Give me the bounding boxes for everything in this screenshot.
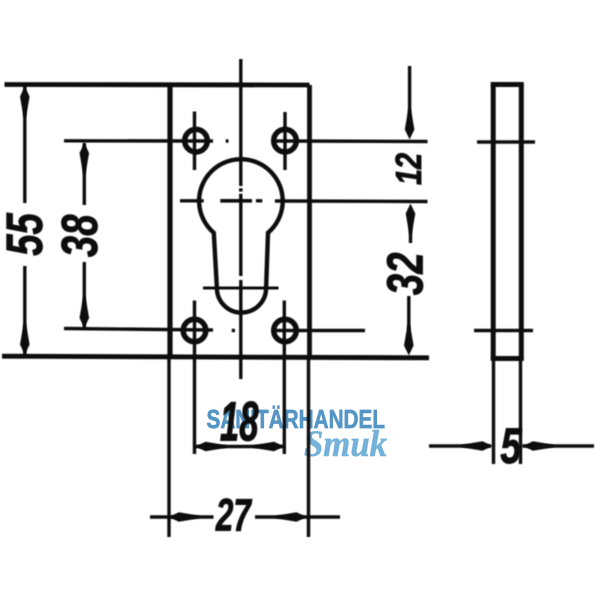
center row line through top holes <box>64 139 213 143</box>
dim line 32 upper tail <box>409 220 412 243</box>
svg-text:Smuk: Smuk <box>304 424 387 465</box>
plate left extension below <box>167 357 170 537</box>
arrow 38 bottom <box>80 297 90 328</box>
crosshair vertical top-right hole <box>283 112 286 170</box>
arrow 55 top <box>20 87 30 118</box>
dash-dot dot top row <box>226 139 229 143</box>
svg-text:55: 55 <box>0 212 53 255</box>
dim line 5 left <box>429 444 491 447</box>
svg-text:38: 38 <box>51 215 109 258</box>
wire top extension + plate top edge <box>5 82 310 87</box>
center row line bottom holes right part <box>272 329 365 332</box>
wire bottom extension + plate bottom edge <box>2 356 429 358</box>
screw hole top-right <box>274 129 297 152</box>
arrow 12 down <box>405 109 415 140</box>
arrow 27 left <box>169 512 200 522</box>
dim line 38 lower segment <box>83 262 86 327</box>
screw hole top-left <box>185 129 208 152</box>
crosshair vertical top-left hole <box>193 112 196 171</box>
screw hole bottom-left <box>183 319 206 342</box>
keyhole center row middle dash <box>220 199 252 203</box>
arrow 32 down <box>404 325 414 356</box>
keyhole center row short dash <box>256 199 262 202</box>
side view left edge <box>491 85 496 359</box>
vertical center line upper <box>239 59 242 186</box>
screw hole bottom-right <box>274 319 297 342</box>
vertical center line dot <box>239 188 243 191</box>
dash-dot dot bottom row <box>232 329 235 333</box>
center row line top holes right part <box>273 139 427 143</box>
arrow 18 right <box>253 442 284 452</box>
side view top edge <box>491 82 524 87</box>
arrow 5 left <box>462 441 493 451</box>
dim line 55 upper segment <box>23 86 26 203</box>
dim line 27 right <box>255 515 340 518</box>
side view right edge <box>519 85 524 359</box>
svg-text:27: 27 <box>215 491 253 541</box>
dim line 38 upper segment <box>83 143 86 205</box>
plate right edge <box>307 85 312 357</box>
dim line 5 right <box>523 444 595 447</box>
arrow 38 top <box>80 143 90 174</box>
vertical center line lower <box>239 280 242 379</box>
svg-text:32: 32 <box>376 253 434 296</box>
center row line through bottom holes <box>64 329 213 331</box>
crosshair vertical bottom-left hole + 18 extension <box>193 301 196 455</box>
side view bottom edge <box>491 356 524 361</box>
dim line 55 lower segment <box>23 266 26 355</box>
svg-text:12: 12 <box>388 153 429 185</box>
vertical center line middle <box>239 194 242 276</box>
dim line 18 <box>195 445 284 448</box>
arrow 55 bottom <box>20 324 30 355</box>
svg-text:5: 5 <box>500 419 522 474</box>
arrow 27 right <box>276 512 307 522</box>
slot bottom construction line <box>203 286 279 289</box>
dim line 27 left <box>150 515 214 518</box>
side view crossing line top row <box>477 140 535 143</box>
keyhole profile (circle + slot outline) <box>199 159 283 312</box>
side view right extension below <box>519 359 522 465</box>
side view left extension below <box>492 359 495 465</box>
crosshair vertical bottom-right hole + 18 extension <box>283 301 286 455</box>
plate left edge <box>167 85 172 358</box>
arrow 18 left <box>196 442 227 452</box>
side view crossing line bottom row <box>474 329 533 332</box>
keyhole center row line left <box>180 199 204 202</box>
arrow 5 right <box>523 441 554 451</box>
plate right extension below <box>307 357 310 537</box>
dim line 32 lower segment <box>407 296 410 330</box>
keyhole center row line right <box>275 199 428 203</box>
svg-text:18: 18 <box>220 390 259 453</box>
arrow 32 up <box>406 204 416 235</box>
dim line 12 vertical <box>408 66 411 120</box>
